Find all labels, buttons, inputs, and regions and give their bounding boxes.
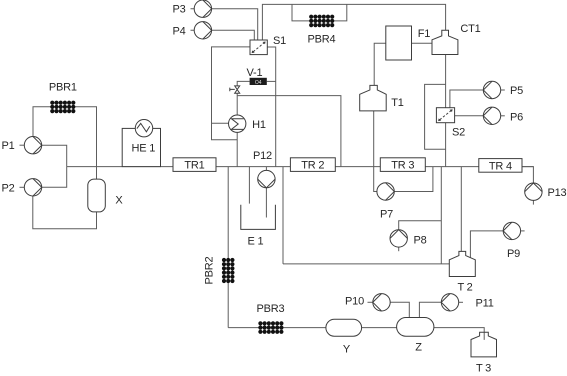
heater H1: [229, 115, 246, 132]
vessel E 1 (open bath): [241, 205, 276, 230]
wire P8 bottom stub: [398, 247, 400, 251]
svg-text:TR 4: TR 4: [489, 160, 512, 172]
wire S1 left outlet to H1 loop: [212, 47, 251, 140]
pump P8: [390, 230, 407, 247]
svg-text:PBR3: PBR3: [257, 303, 285, 315]
block TR 3: [380, 158, 425, 172]
wire P11 to Z top: [419, 302, 441, 317]
svg-text:PBR2: PBR2: [204, 256, 216, 284]
svg-text:P6: P6: [510, 112, 523, 124]
vessel Z: [397, 318, 434, 337]
wire P7 outlet riser: [394, 167, 433, 192]
wire P6 outlet stub: [501, 115, 505, 117]
svg-text:S1: S1: [273, 35, 286, 47]
svg-text:PBR1: PBR1: [49, 82, 77, 94]
svg-text:TR 3: TR 3: [391, 160, 414, 172]
pump P12: [258, 170, 275, 187]
wire P3 to S1 top: [191, 9, 258, 40]
wire E1 dip tube 1: [248, 167, 250, 204]
wire P8 to riser: [399, 221, 442, 230]
svg-text:P1: P1: [1, 140, 14, 152]
reactor PBR1 packed bed: [50, 101, 75, 114]
wire S1 right outlet down to main line: [267, 47, 275, 167]
wire valve branch right down to main line: [237, 96, 341, 167]
pump P11: [441, 294, 458, 311]
tank T1: [360, 85, 387, 111]
svg-text:X: X: [115, 194, 123, 206]
svg-text:TR1: TR1: [184, 160, 204, 172]
wire P11 outlet stub: [459, 301, 463, 303]
svg-text:P10: P10: [345, 295, 364, 307]
heat exchanger HE 1 circle: [135, 120, 152, 137]
wire P1 to PBR1 loop top: [33, 107, 97, 179]
wire S2 bypass loop: [425, 84, 446, 149]
svg-text:PBR4: PBR4: [308, 34, 336, 46]
tank T 3: [471, 332, 497, 357]
svg-text:P9: P9: [507, 248, 520, 260]
svg-text:Y: Y: [343, 344, 351, 356]
separator S1: [250, 40, 267, 55]
wire CT1 bottom through S2 to main line: [445, 55, 447, 167]
pump P2: [24, 179, 41, 196]
wire P12 to E1 dip tube 2: [265, 188, 267, 218]
reactor PBR3 packed bed: [258, 321, 283, 334]
reactor PBR2 packed bed: [222, 258, 235, 283]
svg-text:V-1: V-1: [247, 67, 263, 79]
valve (manual) below V-1: [230, 86, 240, 93]
wire riser main line to lower transfer line: [440, 167, 442, 264]
svg-text:P4: P4: [172, 25, 185, 37]
pump P3: [194, 0, 211, 17]
svg-text:S2: S2: [452, 127, 465, 139]
pump P1: [24, 137, 41, 154]
wire P2 inlet stub: [20, 186, 25, 188]
wire P1 outlet to junction: [42, 145, 67, 166]
wire P9 outlet stub: [521, 230, 525, 232]
wire P5 outlet stub: [501, 89, 505, 91]
svg-text:T1: T1: [391, 97, 404, 109]
wire PBR4 bypass: [292, 4, 347, 21]
separator S2: [436, 108, 454, 123]
wire V-1 left to valve: [237, 81, 249, 86]
wire S2 right to P6: [455, 115, 484, 117]
svg-text:P11: P11: [476, 297, 494, 309]
pump P4: [194, 22, 211, 39]
wire T2 to P9: [470, 231, 503, 258]
wire TR4 to P13: [522, 167, 533, 183]
wire bottom line PBR2 to Y: [228, 327, 326, 329]
wire P13 bottom stub: [532, 200, 534, 204]
svg-text:P2: P2: [1, 182, 14, 194]
svg-text:CT1: CT1: [460, 23, 480, 35]
wire main process line: [67, 166, 534, 168]
wire X bottom return to P2: [33, 196, 97, 229]
wire P12 inlet stub: [265, 167, 267, 171]
svg-text:P12: P12: [253, 150, 272, 162]
valve block V-1: [250, 78, 267, 86]
wire P5 to S2 top: [450, 90, 483, 108]
svg-text:F1: F1: [418, 28, 431, 40]
pump P10: [373, 294, 390, 311]
wire H1 left stub: [212, 122, 229, 124]
svg-text:H1: H1: [252, 119, 266, 131]
wire P1 inlet stub: [20, 144, 25, 146]
reactor PBR4 packed bed: [309, 15, 334, 28]
svg-text:P8: P8: [414, 234, 427, 246]
wire T1 bottom through main line to P7: [374, 111, 377, 192]
wire drop to T2 neck: [460, 167, 462, 252]
svg-text:T 2: T 2: [457, 282, 472, 294]
wire valve down to H1: [236, 93, 238, 115]
pump P6: [483, 107, 500, 124]
wire H1 bottom to main line: [236, 132, 238, 166]
vessel X: [88, 179, 106, 212]
svg-text:O4: O4: [255, 80, 262, 86]
wire PBR2 drop line: [227, 167, 229, 328]
svg-text:P3: P3: [172, 4, 185, 16]
wire S1 riser to top header: [262, 4, 445, 40]
svg-text:P13: P13: [548, 187, 567, 199]
svg-text:P5: P5: [510, 85, 523, 97]
heat exchanger HE 1 box: [122, 128, 160, 166]
filter F1: [386, 26, 412, 60]
tank CT1: [432, 30, 458, 54]
wire V-1 right: [267, 80, 276, 82]
wire P2 outlet to junction: [42, 167, 67, 188]
vessel Y: [326, 319, 362, 336]
svg-text:Z: Z: [415, 342, 422, 354]
svg-text:TR 2: TR 2: [301, 160, 324, 172]
pump P7: [377, 183, 394, 200]
wire drop to lower transfer line: [282, 167, 284, 264]
block TR1: [173, 158, 216, 172]
pump P9: [503, 222, 520, 239]
wire Y to Z: [362, 327, 397, 329]
block TR 4: [479, 159, 522, 173]
svg-text:HE 1: HE 1: [131, 142, 155, 154]
block TR 2: [290, 158, 335, 172]
wire P4 to S1 top: [191, 30, 255, 40]
wire P10 to Z top: [391, 302, 410, 317]
pump P13: [525, 183, 542, 200]
wire Z to T3: [434, 328, 484, 340]
svg-text:P7: P7: [380, 209, 393, 221]
tank T 2: [449, 251, 475, 276]
wire P10 inlet stub: [368, 301, 373, 303]
svg-text:E 1: E 1: [248, 236, 264, 248]
svg-text:T 3: T 3: [476, 363, 491, 375]
wire F1 right to CT1: [412, 42, 433, 44]
pump P5: [483, 81, 500, 98]
wire lower transfer line to T2: [283, 263, 449, 265]
wire F1 left to T1: [374, 43, 386, 85]
